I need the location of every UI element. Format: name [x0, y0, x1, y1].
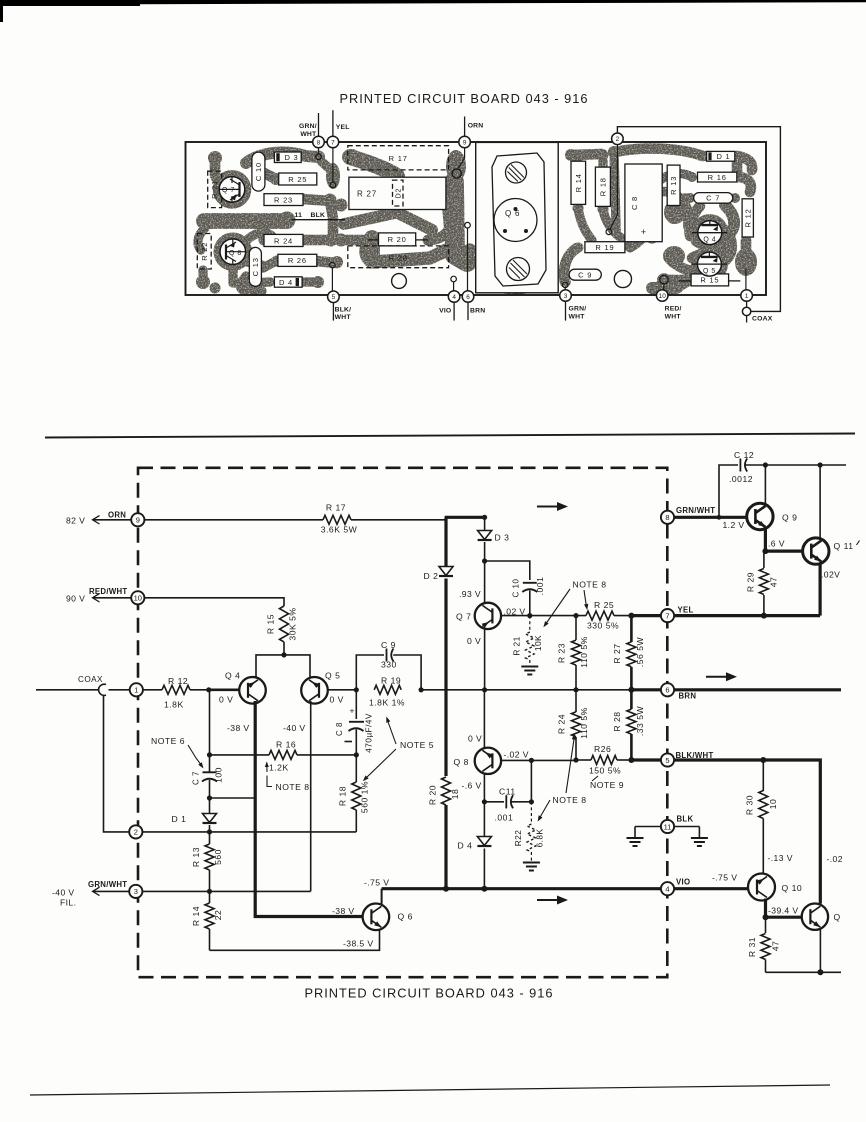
- resistor R24: [573, 687, 578, 692]
- wire junction to Q11 base thick: [765, 549, 802, 552]
- wire node3 line: [142, 890, 310, 892]
- wire Q7 collector: [484, 561, 486, 604]
- PCB copper traces: [196, 146, 757, 296]
- resistor R22 (PCB): [197, 234, 211, 270]
- resistor R18: [355, 755, 357, 782]
- pad 9: [459, 136, 471, 148]
- PCB board outline: [186, 142, 767, 295]
- svg-text:RED/: RED/: [665, 306, 682, 313]
- svg-text:R 14: R 14: [191, 906, 201, 926]
- svg-text:11: 11: [295, 212, 303, 219]
- svg-text:5: 5: [332, 294, 336, 301]
- svg-text:100: 100: [214, 767, 224, 783]
- resistor R26: [576, 759, 591, 761]
- svg-text:.6 V: .6 V: [768, 538, 785, 548]
- svg-text:R 27: R 27: [612, 643, 622, 663]
- svg-text:WHT: WHT: [335, 314, 352, 321]
- wire Q7 base to R25: [501, 615, 587, 617]
- resistor R17: [323, 515, 351, 524]
- transistor Q6: [363, 904, 390, 931]
- wire node5 right thick: [674, 760, 820, 904]
- svg-text:D2: D2: [395, 188, 402, 199]
- wire Q9 collector: [764, 465, 766, 504]
- svg-text:4: 4: [665, 885, 669, 894]
- svg-text:110 5%: 110 5%: [579, 707, 589, 739]
- pad 3: [560, 290, 572, 302]
- transistor Q11: [803, 538, 829, 564]
- svg-text:9: 9: [463, 139, 467, 146]
- wire C7-D1 junction to emitter line: [210, 797, 256, 799]
- node 2: [129, 825, 142, 838]
- wire R16 to R18 top: [297, 754, 356, 756]
- svg-text:3: 3: [134, 887, 138, 896]
- svg-text:-39.4 V: -39.4 V: [768, 905, 799, 915]
- transistor Q9: [747, 503, 773, 529]
- svg-text:6.8K: 6.8K: [535, 829, 545, 848]
- wire node8 to Q9 base thick: [674, 516, 747, 519]
- svg-text:Q 8: Q 8: [454, 757, 469, 767]
- svg-text:90 V: 90 V: [66, 593, 85, 603]
- svg-text:0 V: 0 V: [330, 694, 344, 704]
- resistor R17 dashed (PCB): [348, 146, 449, 170]
- ground left of node11: [635, 826, 661, 828]
- svg-text:R 13: R 13: [669, 176, 678, 195]
- svg-text:R 27: R 27: [357, 190, 377, 199]
- svg-text:R 16: R 16: [276, 739, 296, 749]
- svg-text:0 V: 0 V: [219, 695, 233, 705]
- svg-text:Q: Q: [834, 912, 841, 922]
- scan artifact top bar: [0, 0, 140, 6]
- svg-text:5: 5: [665, 756, 669, 765]
- wire VIO line thick: [382, 887, 661, 890]
- resistor R16 (PCB): [698, 172, 737, 182]
- capacitor C8: [355, 690, 357, 719]
- svg-text:FIL.: FIL.: [60, 897, 76, 907]
- wire stub pad 9: [464, 117, 466, 137]
- wire Q12 emitter down: [819, 929, 821, 973]
- svg-text:7: 7: [665, 611, 669, 620]
- svg-text:R 23: R 23: [274, 195, 293, 204]
- svg-text:GRN/: GRN/: [569, 306, 587, 313]
- svg-text:11: 11: [664, 822, 672, 831]
- resistor R20: [442, 777, 451, 805]
- svg-text:2: 2: [616, 136, 620, 143]
- svg-text:-40 V: -40 V: [52, 888, 75, 898]
- svg-text:4: 4: [452, 294, 456, 301]
- svg-text:-40 V: -40 V: [283, 723, 306, 733]
- resistor R14: [209, 891, 211, 903]
- pad 2: [610, 144, 617, 229]
- node 4: [661, 882, 674, 895]
- svg-text:1.2 V: 1.2 V: [723, 520, 745, 530]
- transistor Q5: [301, 677, 328, 704]
- flow arrow left of node8: [537, 506, 559, 508]
- wire loop pad2 to COAX: [617, 127, 780, 312]
- svg-text:R 28: R 28: [612, 711, 622, 731]
- resistor R23: [575, 616, 577, 640]
- svg-text:.02V: .02V: [821, 570, 840, 580]
- resistor R24 (PCB): [264, 234, 303, 246]
- svg-text:BRN: BRN: [470, 308, 485, 315]
- svg-text:Q 9: Q 9: [782, 513, 797, 523]
- wire node10 to R15: [144, 598, 284, 606]
- pad 7: [327, 136, 339, 148]
- svg-text:8: 8: [317, 139, 321, 146]
- diode D4: [477, 837, 491, 846]
- COAX connector symbol: [99, 684, 106, 695]
- capacitor C10: [485, 561, 530, 580]
- transistor Q8: [475, 748, 501, 774]
- resistor R30: [762, 760, 764, 791]
- transistor Q4 (PCB): [698, 221, 722, 245]
- pad 8: [313, 136, 325, 148]
- Q6 mounting rectangle: [476, 142, 559, 292]
- diode D2: [439, 567, 453, 576]
- svg-text:BLK: BLK: [311, 212, 326, 219]
- svg-text:R 31: R 31: [747, 937, 757, 957]
- svg-text:COAX: COAX: [752, 316, 773, 323]
- wire stub pad 7: [332, 110, 334, 136]
- wire junction down to C11: [530, 760, 532, 801]
- svg-text:C 10: C 10: [512, 579, 521, 598]
- svg-text:R26: R26: [594, 744, 611, 754]
- wire -40V FIL to node 3: [93, 890, 129, 892]
- board hole left: [392, 274, 407, 289]
- svg-text:R 12: R 12: [743, 208, 752, 227]
- resistor R29: [763, 551, 765, 568]
- svg-text:R 29: R 29: [746, 572, 756, 592]
- node 3: [129, 885, 142, 898]
- svg-text:Q 8: Q 8: [229, 250, 242, 257]
- transistor Q8 (PCB): [220, 239, 246, 265]
- svg-text:R 25: R 25: [594, 600, 614, 610]
- svg-text:.001: .001: [535, 577, 545, 596]
- svg-text:R 19: R 19: [381, 676, 401, 686]
- svg-text:Q 10: Q 10: [782, 883, 803, 893]
- pad 11 BLK trace wire: [292, 219, 346, 221]
- svg-text:YEL: YEL: [336, 124, 350, 131]
- wire thick vertical D2 branch: [444, 517, 447, 566]
- svg-text:D 3: D 3: [495, 533, 510, 543]
- board hole right: [614, 270, 631, 287]
- svg-text:3: 3: [564, 293, 568, 300]
- pad 6: [462, 291, 474, 303]
- svg-text:470µF/4V: 470µF/4V: [364, 713, 374, 753]
- wire Q8 collector to BRN: [483, 690, 485, 749]
- resistor R28 dashed (PCB): [348, 246, 449, 268]
- transistor Q4: [239, 677, 266, 704]
- svg-text:560 1%: 560 1%: [360, 781, 370, 813]
- resistor R16: [269, 750, 297, 759]
- svg-text:R 20: R 20: [428, 785, 438, 805]
- svg-text:R 22: R 22: [200, 242, 209, 261]
- svg-text:.93 V: .93 V: [459, 589, 481, 599]
- wire Q7 emitter to BRN: [484, 628, 486, 690]
- label NOTE 9: [592, 776, 598, 781]
- svg-text:R 19: R 19: [595, 243, 614, 252]
- svg-text:2: 2: [134, 828, 138, 837]
- resistor R23 (PCB): [264, 194, 303, 206]
- svg-text:.56 5W: .56 5W: [635, 637, 645, 668]
- wire Q8 base to BLK/WHT line: [501, 759, 576, 761]
- svg-text:560: 560: [213, 849, 223, 865]
- wire R26 to node5: [631, 758, 661, 761]
- svg-text:10: 10: [768, 799, 778, 810]
- flow arrow below VIO line: [537, 899, 559, 901]
- svg-text:Q 5: Q 5: [703, 268, 716, 275]
- svg-text:6: 6: [665, 686, 669, 695]
- wire Q11 emitter to YEL: [818, 564, 821, 616]
- svg-text:R 17: R 17: [389, 154, 408, 163]
- wire BRN line into node6: [485, 689, 632, 691]
- svg-text:C11: C11: [499, 787, 516, 797]
- wire Q6 collector: [381, 889, 383, 905]
- svg-text:Q 11: Q 11: [834, 541, 854, 551]
- capacitor C7: [209, 755, 211, 772]
- svg-text:-.75 V: -.75 V: [364, 878, 389, 888]
- resistor R21 dashed: [529, 616, 531, 630]
- svg-text:C 7: C 7: [706, 194, 720, 203]
- wire junction to Q12 base thick: [766, 916, 802, 919]
- capacitor C13 (PCB): [249, 247, 261, 286]
- svg-text:R 17: R 17: [326, 503, 346, 513]
- resistor R15: [280, 606, 289, 642]
- svg-text:NOTE 8: NOTE 8: [553, 795, 587, 805]
- svg-text:8: 8: [665, 513, 669, 522]
- svg-text:10: 10: [659, 293, 667, 300]
- svg-text:NOTE 5: NOTE 5: [400, 740, 434, 750]
- resistor R14 (PCB): [571, 161, 586, 204]
- svg-text:Q 7: Q 7: [456, 611, 471, 621]
- transistor Q7 (PCB): [219, 177, 245, 203]
- svg-text:47: 47: [769, 577, 779, 588]
- capacitor C9: [356, 655, 384, 690]
- svg-text:1: 1: [134, 686, 138, 695]
- svg-text:1.8K 1%: 1.8K 1%: [369, 697, 405, 707]
- svg-text:-.6 V: -.6 V: [462, 781, 482, 791]
- flow arrow right of node6: [706, 676, 728, 678]
- wire R17 to corner: [351, 519, 446, 521]
- svg-text:D 4: D 4: [279, 278, 293, 287]
- svg-text:R 14: R 14: [574, 173, 583, 192]
- svg-text:C 8: C 8: [335, 722, 344, 736]
- diode D1: [209, 798, 211, 813]
- svg-text:D 1: D 1: [716, 152, 730, 161]
- svg-text:.0012: .0012: [729, 474, 753, 484]
- svg-text:VIO: VIO: [439, 308, 451, 315]
- resistor R20 (PCB): [379, 233, 416, 246]
- svg-text:GRN/WHT: GRN/WHT: [88, 880, 127, 889]
- dashed PCB boundary box: [138, 468, 667, 977]
- svg-text:NOTE 6: NOTE 6: [151, 736, 185, 746]
- ground right of node11: [674, 826, 699, 828]
- pad 5: [328, 291, 340, 303]
- resistor R28: [630, 690, 633, 709]
- svg-text:0 V: 0 V: [468, 734, 482, 744]
- svg-text:R 28: R 28: [389, 254, 408, 263]
- wire coax shield to node 2: [104, 696, 130, 832]
- svg-text:D 3: D 3: [284, 153, 298, 162]
- svg-text:1: 1: [745, 293, 749, 300]
- svg-text:0 V: 0 V: [467, 636, 481, 646]
- svg-text:R 25: R 25: [288, 175, 307, 184]
- svg-text:R 23: R 23: [557, 643, 567, 663]
- capacitor C9 (PCB): [569, 269, 601, 280]
- svg-text:R 18: R 18: [338, 786, 348, 806]
- svg-text:GRN/WHT: GRN/WHT: [676, 506, 715, 515]
- node 6: [661, 683, 674, 696]
- resistor R13: [209, 832, 211, 844]
- svg-text:82 V: 82 V: [66, 515, 85, 525]
- transistor Q12: [802, 904, 828, 930]
- svg-text:WHT: WHT: [665, 314, 682, 321]
- svg-text:Q 5: Q 5: [325, 671, 340, 681]
- svg-text:R 26: R 26: [288, 256, 307, 265]
- wire bottom right line: [766, 971, 842, 973]
- node 5: [661, 753, 674, 766]
- svg-text:NOTE 8: NOTE 8: [573, 579, 607, 589]
- bottom scan line: [30, 1085, 830, 1095]
- svg-text:-.13 V: -.13 V: [768, 853, 793, 863]
- svg-text:+: +: [350, 706, 355, 716]
- resistor R19: [374, 685, 401, 694]
- svg-text:WHT: WHT: [300, 131, 317, 138]
- svg-text:-.75 V: -.75 V: [712, 873, 737, 883]
- svg-text:D 1: D 1: [172, 814, 187, 824]
- svg-text:R 30: R 30: [745, 795, 755, 815]
- svg-text:.001: .001: [495, 813, 514, 823]
- node 9: [131, 513, 144, 526]
- svg-text:C 10: C 10: [254, 162, 263, 181]
- svg-text:150 5%: 150 5%: [589, 766, 621, 776]
- svg-text:BRN: BRN: [679, 691, 697, 700]
- transistor Q5 (PCB): [697, 252, 721, 276]
- node 11: [661, 820, 674, 833]
- svg-text:110 5%: 110 5%: [579, 636, 589, 668]
- svg-text:Q 4: Q 4: [703, 237, 716, 244]
- separator rule: [45, 434, 855, 438]
- diode D2 dashed (PCB): [393, 180, 404, 206]
- wire Q9 emitter to junction: [764, 530, 767, 552]
- resistor R27: [630, 616, 633, 642]
- COAX connector symbol (PCB): [746, 301, 748, 308]
- wire node6 right thick: [674, 688, 841, 691]
- transistor Q10: [748, 874, 775, 901]
- svg-text:VIO: VIO: [676, 878, 690, 887]
- svg-text:D 2: D 2: [424, 571, 439, 581]
- svg-text:R 18: R 18: [599, 177, 608, 196]
- svg-text:1.8K: 1.8K: [164, 699, 184, 709]
- resistor R31: [765, 917, 767, 933]
- svg-text:D 4: D 4: [458, 840, 473, 850]
- wire R15 to collector rail: [283, 642, 285, 655]
- pad 10: [656, 290, 668, 302]
- svg-text:Q 6: Q 6: [505, 209, 520, 218]
- wire stub pad 8: [318, 113, 320, 137]
- wire Q10 emitter junction: [764, 899, 767, 918]
- svg-text:RED/WHT: RED/WHT: [89, 587, 127, 596]
- svg-text:C 9: C 9: [578, 271, 592, 280]
- resistor R15 (PCB): [691, 274, 729, 286]
- node 1: [130, 683, 143, 696]
- svg-text:GRN/: GRN/: [299, 123, 317, 130]
- ground under R21: [521, 666, 538, 668]
- resistor R12 (PCB): [742, 199, 753, 237]
- svg-text:R 20: R 20: [388, 235, 407, 244]
- svg-text:R 12: R 12: [168, 676, 188, 686]
- node 10: [131, 591, 144, 604]
- svg-text:R 24: R 24: [274, 236, 293, 245]
- diode D3 (PCB): [274, 152, 301, 163]
- svg-text:.33 5W: .33 5W: [635, 706, 645, 737]
- svg-text:18: 18: [450, 789, 460, 800]
- pad 1: [741, 290, 753, 302]
- svg-text:C 7: C 7: [192, 771, 201, 785]
- wire R12 to Q4 base: [190, 689, 209, 691]
- svg-text:1.2K: 1.2K: [269, 762, 289, 772]
- svg-text:-38 V: -38 V: [227, 723, 250, 733]
- resistor R12: [162, 685, 190, 694]
- wire node4 to Q10 base thick: [674, 887, 748, 890]
- svg-text:6: 6: [466, 294, 470, 301]
- diode D4 (PCB): [274, 277, 302, 287]
- wire node9 to R17: [144, 519, 323, 521]
- svg-text:10K: 10K: [533, 635, 543, 651]
- wire R19 to BRN right: [421, 689, 485, 691]
- svg-text:C 12: C 12: [734, 450, 754, 460]
- svg-text:R 24: R 24: [557, 714, 567, 734]
- svg-text:3.6K 5W: 3.6K 5W: [321, 525, 358, 535]
- svg-text:WHT: WHT: [569, 314, 586, 321]
- svg-text:BLK: BLK: [677, 815, 694, 824]
- wire Q4 emitter to Q6 base (thick): [255, 701, 362, 917]
- wire Q5 emitter down: [310, 701, 312, 891]
- pad 4: [448, 291, 460, 303]
- resistor R27 (PCB): [349, 177, 446, 209]
- wire R16 line: [210, 754, 270, 756]
- diode D1 (PCB): [707, 151, 735, 161]
- svg-text:Q 6: Q 6: [398, 912, 413, 922]
- wire Q11 collector: [819, 465, 821, 538]
- svg-text:R 21: R 21: [210, 180, 219, 199]
- wire Q8 emitter down: [483, 773, 485, 836]
- wire Q5 base to junction: [328, 689, 357, 691]
- capacitor C7 (PCB): [694, 193, 733, 204]
- svg-text:NOTE 9: NOTE 9: [590, 780, 624, 790]
- wire node1 to R12: [143, 689, 162, 691]
- svg-text:ORN: ORN: [468, 123, 484, 130]
- svg-text:10: 10: [134, 594, 142, 603]
- resistor R26 (PCB): [278, 254, 317, 266]
- svg-text:22: 22: [213, 910, 223, 921]
- wire -38.5V line: [210, 930, 380, 950]
- svg-text:R 15: R 15: [266, 614, 276, 634]
- svg-text:R 15: R 15: [700, 276, 719, 285]
- svg-text:R22: R22: [513, 830, 523, 847]
- wire node2 line: [142, 831, 356, 833]
- svg-text:9: 9: [136, 516, 140, 525]
- resistor R21 (PCB): [208, 171, 222, 207]
- svg-text:Q 7: Q 7: [222, 187, 235, 194]
- svg-text:R 21: R 21: [512, 636, 522, 655]
- wire thick corner to D3 branch: [445, 516, 485, 519]
- svg-text:C 8: C 8: [630, 196, 639, 210]
- resistor R22 dashed: [530, 802, 532, 822]
- svg-text:C 13: C 13: [251, 257, 260, 276]
- svg-text:-.02: -.02: [827, 854, 843, 864]
- resistor R19 (PCB): [585, 242, 625, 253]
- resistor R25: [586, 611, 614, 620]
